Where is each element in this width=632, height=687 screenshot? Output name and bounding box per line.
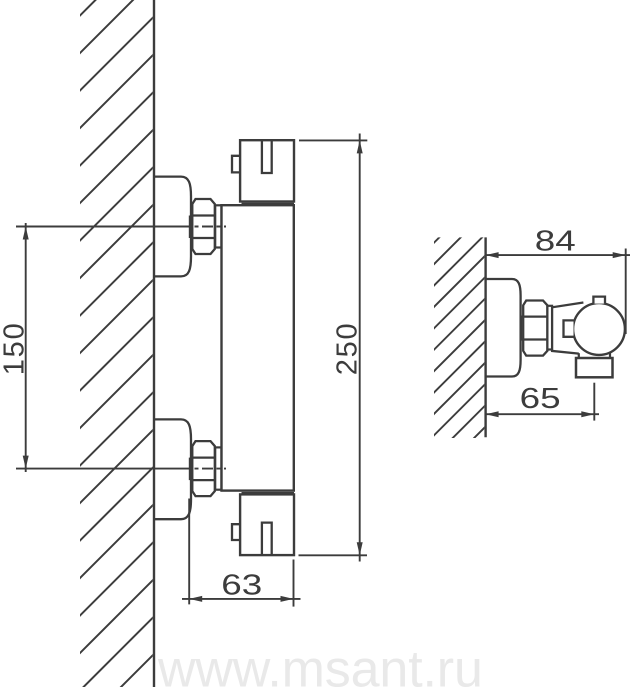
bottom handle tab (232, 524, 240, 540)
dim 84 text (535, 225, 576, 257)
bottom handle slot (262, 523, 272, 555)
outlet neck stubs (578, 353, 580, 358)
bottom handle collar (242, 492, 295, 494)
svg-text:84: 84 (535, 225, 576, 257)
lower washer (215, 447, 221, 489)
svg-text:65: 65 (520, 383, 561, 415)
top handle tab (232, 156, 240, 173)
dim 250 ext lines (299, 139, 367, 141)
upper washer (215, 205, 221, 247)
upper escutcheon (154, 177, 191, 277)
dim 65 ext line (593, 383, 595, 421)
dim 250 line (359, 134, 361, 562)
cartridge housing (552, 303, 583, 354)
dim 63 ext lines (188, 499, 190, 605)
wall face line (left view) (153, 0, 155, 687)
mixer body (222, 205, 294, 490)
dim 63 line (182, 598, 301, 600)
wall face line (right view) (484, 237, 486, 437)
knob top tab (593, 297, 605, 304)
upper hex nut (192, 199, 215, 254)
svg-text:63: 63 (221, 569, 262, 601)
top handle collar (242, 203, 295, 205)
side hex nut (523, 301, 547, 356)
lower escutcheon (154, 419, 191, 519)
lower hex nut (192, 441, 215, 496)
dim 150 line (25, 223, 27, 472)
svg-text:150: 150 (0, 322, 31, 376)
svg-text:www.msant.ru: www.msant.ru (157, 641, 483, 687)
top handle slot (262, 141, 272, 173)
dim 65 line (486, 413, 599, 415)
dim 84 ext line (625, 249, 627, 335)
outlet (576, 358, 613, 377)
dim 65 text (520, 383, 561, 415)
dim 63 text (221, 569, 262, 601)
knob left tab (564, 320, 574, 336)
lower centerline (16, 468, 180, 470)
top handle block (240, 140, 294, 201)
side washer (547, 306, 552, 350)
dim 84 line (486, 254, 630, 256)
upper centerline (16, 226, 180, 228)
handle knob (circle) (573, 303, 625, 355)
svg-text:250: 250 (332, 322, 364, 376)
side escutcheon (486, 279, 521, 377)
bottom handle block (240, 494, 294, 555)
